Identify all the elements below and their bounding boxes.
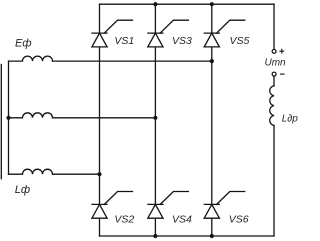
- wire: column 3 lower segment: [211, 218, 213, 236]
- junction dot: phase C / column 1: [97, 172, 101, 176]
- junction dot: bottom bus / column 3: [210, 234, 214, 238]
- wire: column 1 middle segment: [99, 47, 101, 205]
- inductor phase B winding: [9, 113, 53, 118]
- wire: right vertical from top bus to + terminal: [273, 4, 275, 49]
- thyristor VS5: [204, 20, 245, 47]
- wire: secondary winding common bus (left vertical): [8, 61, 10, 174]
- wire: column 3 middle segment: [211, 47, 213, 205]
- junction dot: left bus / phase B: [6, 116, 10, 120]
- wire: reactor to bottom bus: [273, 125, 275, 236]
- inductor phase A winding (Eф): [9, 56, 53, 61]
- thyristor VS6: [204, 192, 245, 219]
- junction dot: top bus / column 3: [210, 2, 214, 6]
- svg-text:VS1: VS1: [114, 35, 134, 47]
- wire: phase C line to column 1: [53, 173, 100, 175]
- svg-text:VS6: VS6: [229, 213, 249, 225]
- svg-text:VS5: VS5: [230, 35, 250, 47]
- thyristor VS4: [148, 192, 189, 219]
- wire: - terminal to smoothing reactor: [273, 76, 275, 86]
- junction dot: bottom bus / column 2: [153, 234, 157, 238]
- junction dot: phase A / column 3: [210, 59, 214, 63]
- wire: column 2 upper segment: [154, 4, 156, 33]
- terminal circle - (output): [272, 72, 276, 76]
- wire: top DC bus: [100, 3, 275, 5]
- svg-text:L∂p: L∂p: [282, 114, 299, 125]
- minus sign at - terminal: [281, 73, 285, 75]
- inductor phase C winding (Lф): [9, 169, 53, 174]
- wire: column 2 lower segment: [154, 218, 156, 236]
- wire: column 1 lower segment: [99, 218, 101, 236]
- terminal circle + (output): [272, 49, 276, 53]
- svg-text:VS3: VS3: [172, 35, 192, 47]
- wire: column 1 upper segment: [99, 4, 101, 33]
- svg-text:VS4: VS4: [172, 213, 192, 225]
- wire: bottom DC bus: [100, 235, 275, 237]
- thyristor VS2: [92, 192, 133, 219]
- wire: magnetic core line (far left, floating): [0, 65, 2, 179]
- junction dot: top bus / column 2: [153, 2, 157, 6]
- wire: column 3 upper segment: [211, 4, 213, 33]
- inductor Ldr (smoothing reactor): [270, 86, 274, 126]
- svg-text:VS2: VS2: [114, 213, 134, 225]
- plus sign at + terminal: [280, 49, 284, 53]
- svg-text:Lф: Lф: [15, 184, 30, 196]
- thyristor VS1: [92, 20, 133, 47]
- svg-text:Eф: Eф: [15, 37, 32, 49]
- junction dot: phase B / column 2: [153, 116, 157, 120]
- wire: phase B line to column 2: [53, 117, 156, 119]
- wire: phase A line to column 3: [53, 60, 212, 62]
- thyristor VS3: [148, 20, 189, 47]
- wire: column 2 middle segment: [154, 47, 156, 205]
- svg-text:Umn: Umn: [265, 58, 287, 69]
